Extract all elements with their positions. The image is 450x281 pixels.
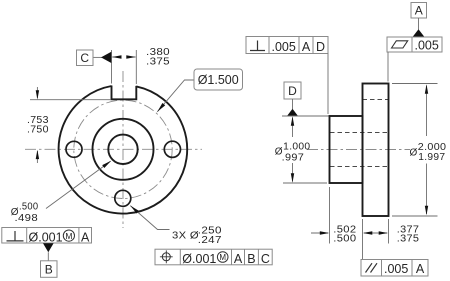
outer circle with notch gap bbox=[59, 86, 188, 214]
FCF connector to flange face bbox=[387, 52, 389, 82]
svg-text:M: M bbox=[219, 253, 226, 262]
label 3X Ø.250/.247 leader bbox=[130, 206, 169, 230]
svg-text:.500: .500 bbox=[333, 233, 356, 244]
flange bottom extension line bbox=[392, 215, 438, 217]
boss top extension line bbox=[282, 115, 329, 117]
notch bottom extension line bbox=[30, 99, 111, 101]
svg-text:A: A bbox=[415, 4, 423, 18]
svg-text:.997: .997 bbox=[282, 152, 305, 163]
FCF position Ø.001 M A B C bbox=[155, 249, 272, 265]
svg-text:D: D bbox=[288, 84, 297, 98]
bolt hole left bbox=[66, 141, 82, 157]
svg-text:B: B bbox=[247, 252, 255, 266]
flange top extension line bbox=[392, 83, 438, 85]
dimension .753/.750 arrows bbox=[36, 87, 38, 98]
svg-text:A: A bbox=[81, 230, 90, 244]
bottom extension line flange right bbox=[388, 219, 390, 244]
svg-text:.005: .005 bbox=[272, 40, 296, 54]
svg-text:A: A bbox=[234, 252, 243, 266]
bolt hole right bbox=[164, 141, 180, 157]
FCF perpendicularity .005 A D bbox=[246, 37, 328, 54]
label Ø.500/.498 leader bbox=[46, 161, 111, 208]
bolt hole bottom bbox=[115, 190, 131, 206]
hidden line hole top bbox=[330, 132, 389, 134]
svg-text:A: A bbox=[416, 262, 425, 276]
boss bottom extension line bbox=[283, 182, 327, 184]
bottom extension line boss left bbox=[329, 187, 331, 244]
svg-text:3X Ø: 3X Ø bbox=[172, 231, 199, 242]
dimension .380/.375 arrows bbox=[112, 56, 120, 58]
svg-text:.498: .498 bbox=[15, 213, 39, 224]
label 3X Ø.250/.247 arrowhead bbox=[130, 206, 139, 214]
datum C box bbox=[77, 50, 94, 66]
hidden line hole bottom bbox=[330, 166, 389, 168]
svg-text:.375: .375 bbox=[146, 56, 170, 67]
dimension .380/.375 extension lines bbox=[111, 50, 113, 84]
bolt circle (dash-dot) bbox=[74, 100, 172, 198]
label Ø1.500 leader bbox=[157, 80, 194, 112]
svg-text:.750: .750 bbox=[27, 124, 49, 135]
boss circle bbox=[93, 119, 154, 180]
svg-text:.005: .005 bbox=[384, 262, 408, 276]
boss rectangle bbox=[330, 116, 363, 183]
datum A triangle bbox=[413, 29, 425, 37]
svg-text:M: M bbox=[65, 231, 72, 241]
dimension .502/.500 arrow bbox=[311, 232, 328, 234]
svg-text:.500: .500 bbox=[19, 202, 39, 213]
flatness symbol bbox=[392, 41, 408, 48]
FCF perpendicularity Ø.001 M A bbox=[2, 228, 92, 244]
svg-text:1.997: 1.997 bbox=[418, 152, 445, 163]
FCF flatness .005 bbox=[387, 37, 442, 52]
svg-text:.375: .375 bbox=[397, 233, 420, 244]
FCF connector to boss bbox=[327, 54, 329, 115]
datum B box bbox=[41, 261, 58, 278]
dimension .377/.375 arrows bbox=[364, 232, 387, 234]
horizontal centerline bbox=[25, 148, 202, 150]
dimension Ø2.000 line and arrows bbox=[426, 86, 428, 137]
flange rectangle bbox=[363, 84, 389, 217]
datum A box bbox=[411, 3, 427, 19]
parallelism symbol bbox=[366, 263, 378, 272]
svg-text:.005: .005 bbox=[415, 38, 439, 52]
svg-text:Ø: Ø bbox=[410, 147, 418, 158]
svg-text:C: C bbox=[80, 51, 89, 65]
label Ø1.500 box bbox=[194, 69, 243, 90]
svg-text:C: C bbox=[261, 252, 270, 266]
position symbol bbox=[162, 253, 170, 261]
hidden line notch bbox=[363, 99, 389, 101]
svg-text:Ø1.500: Ø1.500 bbox=[198, 73, 239, 87]
svg-text:B: B bbox=[45, 263, 53, 277]
datum C triangle bbox=[101, 52, 111, 63]
datum C leader bbox=[93, 56, 102, 58]
datum D triangle bbox=[287, 109, 298, 116]
svg-text:Ø.001: Ø.001 bbox=[29, 230, 63, 244]
dimension Ø1.000 line and arrows bbox=[292, 118, 294, 138]
svg-text:.247: .247 bbox=[198, 235, 222, 246]
keyway notch bbox=[112, 86, 137, 100]
svg-text:A: A bbox=[302, 40, 311, 54]
svg-text:Ø.001: Ø.001 bbox=[182, 252, 216, 266]
center hole bbox=[108, 135, 137, 164]
datum D box bbox=[284, 82, 301, 99]
side centerline bbox=[307, 149, 410, 151]
label Ø.500/.498 arrowhead bbox=[102, 161, 111, 168]
datum B triangle bbox=[43, 243, 54, 252]
label Ø1.500 arrowhead bbox=[157, 103, 165, 112]
svg-text:D: D bbox=[316, 40, 325, 54]
bottom extension line flange left bbox=[362, 219, 364, 260]
FCF parallelism .005 A bbox=[361, 260, 428, 277]
vertical centerline bbox=[122, 71, 124, 228]
svg-text:1.000: 1.000 bbox=[283, 141, 310, 152]
